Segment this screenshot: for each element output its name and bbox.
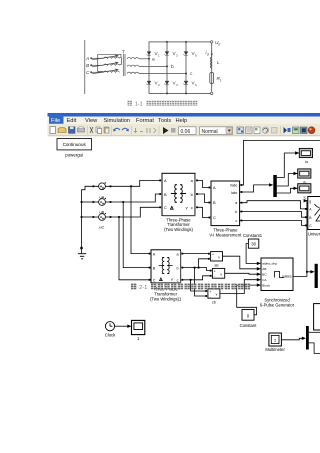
svg-text:+: + [209, 290, 211, 294]
svg-text:v: v [220, 272, 222, 276]
svg-text:Y: Y [171, 278, 174, 282]
svg-text:b: b [171, 64, 174, 70]
svg-text:Constant: Constant [240, 323, 258, 328]
svg-text:c: c [236, 219, 238, 223]
svg-text:Universal: Universal [308, 232, 320, 237]
svg-text:v: v [216, 293, 218, 297]
svg-text:C: C [86, 70, 90, 76]
svg-text:2-1: 2-1 [139, 285, 147, 291]
svg-text:uC: uC [99, 225, 104, 230]
svg-text:+: + [214, 270, 216, 274]
svg-text:Multimeter: Multimeter [265, 347, 285, 352]
svg-text:c: c [191, 205, 193, 210]
svg-text:6-Pulse Generator: 6-Pulse Generator [260, 302, 295, 307]
svg-text:B: B [164, 192, 167, 197]
svg-text:-: - [214, 275, 215, 279]
svg-text:Ic: Ic [304, 195, 307, 199]
svg-text:-: - [212, 258, 213, 262]
svg-text:Vabc: Vabc [230, 184, 238, 188]
svg-text:1-1: 1-1 [135, 102, 143, 108]
svg-text:V-I Measurement: V-I Measurement [209, 233, 242, 238]
svg-text:g: g [309, 200, 311, 204]
svg-text:v: v [218, 256, 220, 260]
svg-text:Help: Help [176, 118, 188, 124]
svg-text:C: C [164, 205, 167, 210]
svg-text:Constant1: Constant1 [243, 233, 263, 238]
svg-text:cb: cb [212, 301, 216, 305]
svg-text:uA: uA [99, 195, 104, 200]
svg-text:alpha_deg: alpha_deg [262, 262, 277, 266]
svg-text:BC: BC [262, 273, 267, 277]
svg-text:Edit: Edit [67, 118, 77, 124]
svg-text:Tools: Tools [158, 118, 171, 124]
svg-text:+: + [212, 253, 214, 257]
svg-text:C: C [153, 279, 156, 283]
svg-text:pulses: pulses [282, 275, 292, 279]
svg-text:0.06: 0.06 [181, 129, 191, 135]
svg-text:A: A [213, 185, 216, 190]
svg-text:T: T [122, 50, 125, 56]
svg-text:A: A [164, 178, 167, 183]
svg-text:Format: Format [136, 118, 154, 124]
svg-text:b: b [191, 192, 193, 197]
svg-text:Ib: Ib [303, 181, 306, 185]
svg-text:(Two Windings): (Two Windings) [164, 227, 193, 232]
svg-text:AB: AB [262, 267, 266, 271]
svg-text:Continuous: Continuous [63, 142, 87, 147]
svg-text:ab: ab [214, 263, 218, 267]
svg-text:c: c [177, 279, 179, 283]
svg-text:Block: Block [262, 283, 270, 287]
svg-text:View: View [85, 118, 98, 124]
svg-text:B: B [213, 200, 216, 205]
svg-text:(Two Windings)1: (Two Windings)1 [150, 296, 182, 301]
svg-text:b: b [235, 210, 237, 214]
svg-text:d: d [207, 53, 209, 57]
svg-text:C: C [213, 215, 216, 220]
svg-text:a: a [152, 58, 155, 63]
svg-text:L: L [217, 60, 220, 66]
svg-text:Clock: Clock [105, 333, 116, 338]
svg-text:30: 30 [251, 242, 256, 247]
svg-text:L: L [220, 79, 222, 83]
svg-text:a: a [235, 201, 237, 205]
svg-text:uB: uB [99, 210, 104, 215]
svg-text:b: b [176, 266, 178, 270]
svg-text:Simulation: Simulation [104, 118, 131, 124]
svg-text:File: File [51, 118, 60, 124]
svg-text:Y: Y [185, 205, 188, 210]
svg-text:Ia: Ia [305, 160, 308, 164]
svg-text:A: A [85, 56, 89, 62]
svg-text:Normal: Normal [202, 129, 218, 135]
svg-text:d: d [218, 43, 220, 47]
svg-text:powergui: powergui [65, 152, 83, 157]
svg-text:-: - [210, 295, 211, 299]
svg-text:Iabc: Iabc [231, 191, 238, 195]
